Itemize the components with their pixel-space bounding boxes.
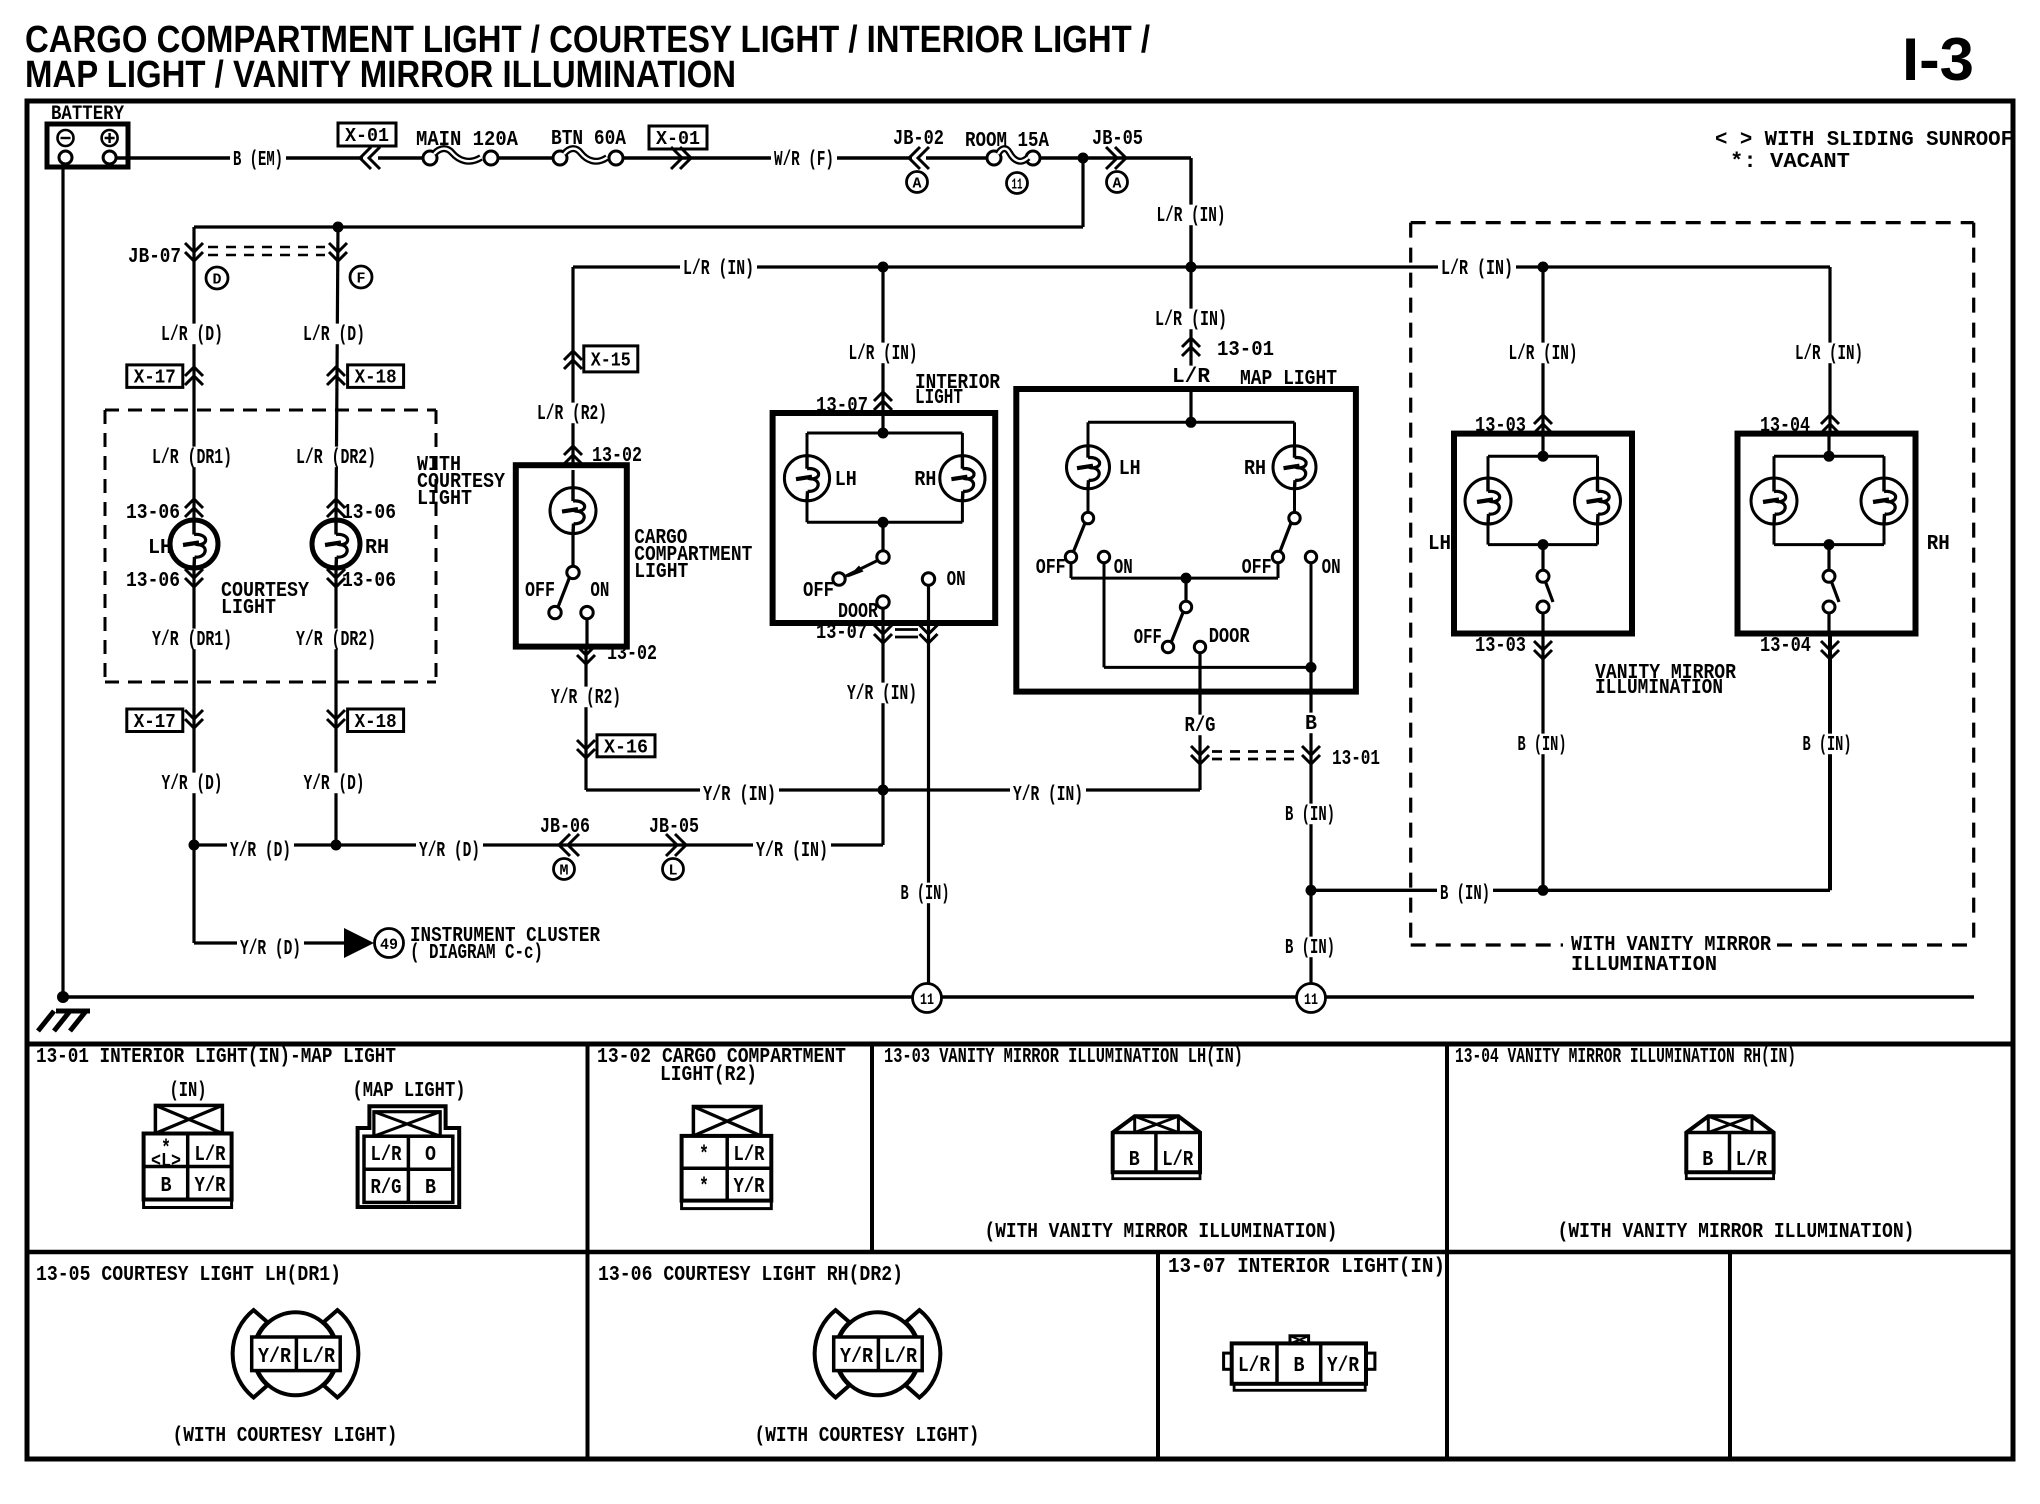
svg-text:11: 11 (920, 991, 934, 1009)
label Y/R(IN) mid 1 (700, 784, 779, 805)
svg-text:R/G: R/G (371, 1177, 402, 1200)
circled L (663, 859, 684, 880)
svg-text:RH: RH (1244, 458, 1266, 481)
connector X-16 (597, 735, 655, 757)
label B(IN) bus (1437, 883, 1493, 904)
wire B(IN) vanity RH (1828, 634, 1832, 891)
cargo OFF contact (549, 606, 561, 618)
svg-text:13-07 INTERIOR LIGHT(IN): 13-07 INTERIOR LIGHT(IN) (1168, 1256, 1445, 1279)
svg-text:13-06: 13-06 (342, 502, 396, 525)
map lamp rails (1189, 389, 1192, 422)
chevron 13-06 RH bottom (327, 569, 345, 578)
svg-text:RH: RH (1927, 533, 1950, 556)
13-01 dashed pair lower (1212, 758, 1296, 761)
svg-text:Y/R (IN): Y/R (IN) (703, 784, 776, 807)
courtesy light dashed box (105, 409, 436, 412)
junction map branch (1186, 262, 1197, 273)
svg-text:JB-06: JB-06 (540, 816, 590, 839)
svg-text:L/R: L/R (1172, 366, 1210, 389)
junction Y/R bus left (189, 840, 200, 851)
label Y/R(R2) (548, 687, 624, 708)
svg-text:M: M (560, 862, 569, 879)
label B(EM) (230, 149, 286, 170)
wire Y/R(D) bus (194, 843, 883, 846)
label L/R(IN) map upper (1152, 309, 1230, 330)
svg-text:I-3: I-3 (1902, 26, 1974, 93)
interior DOOR contact (877, 596, 889, 608)
vanity mirror illumination RH box (1738, 434, 1916, 634)
label L/R(D) right (300, 324, 368, 345)
connector 13-05 (254, 1312, 337, 1395)
wire Y/R(R2) (585, 619, 588, 646)
wire L/R(D) right (336, 227, 338, 520)
connector X-18 top (348, 365, 404, 388)
svg-text:Y/R (R2): Y/R (R2) (551, 687, 621, 710)
svg-text:13-04: 13-04 (1760, 635, 1811, 658)
svg-text:LH: LH (1119, 458, 1141, 481)
svg-text:LIGHT: LIGHT (634, 561, 688, 584)
wire vanity RH branch (1828, 267, 1831, 434)
svg-text:W/R (F): W/R (F) (774, 149, 834, 172)
svg-text:L/R: L/R (302, 1346, 335, 1369)
svg-text:ILLUMINATION: ILLUMINATION (1571, 954, 1717, 977)
vanity mirror illumination RH switch (1827, 545, 1830, 571)
wire to JB-05 (1040, 156, 1191, 159)
svg-text:MAP LIGHT: MAP LIGHT (1240, 368, 1337, 391)
svg-text:Y/R (D): Y/R (D) (162, 773, 223, 796)
label L/R(DR1) (149, 447, 235, 468)
wire Y/R(DR1) (192, 568, 195, 845)
label B(IN) vanity RH (1800, 734, 1855, 755)
svg-text:OFF: OFF (525, 580, 555, 603)
vanity mirror illumination LH switch (1541, 545, 1544, 571)
junction at battery ground (57, 991, 69, 1003)
svg-text:B: B (1702, 1149, 1713, 1172)
svg-text:11: 11 (1304, 991, 1318, 1009)
svg-text:Y/R (IN): Y/R (IN) (756, 840, 828, 863)
battery (47, 124, 128, 167)
svg-text:X-17: X-17 (134, 367, 176, 389)
svg-text:A: A (1113, 175, 1122, 192)
svg-text:*: * (699, 1144, 709, 1167)
svg-text:L/R: L/R (195, 1144, 226, 1167)
connector 13-04 (1686, 1116, 1773, 1172)
label L/R(IN) bus 1 (680, 258, 757, 279)
circled F (350, 266, 372, 288)
label L/R(R2) (534, 403, 610, 424)
connector 13-06 (836, 1312, 919, 1395)
label L/R(IN) map top (1154, 205, 1229, 226)
label L/R(IN) vanity LH (1506, 343, 1581, 364)
label B map (1302, 713, 1320, 734)
svg-text:Y/R (DR2): Y/R (DR2) (296, 629, 376, 652)
svg-text:L/R (D): L/R (D) (161, 324, 223, 347)
fuse BTN 60A (553, 151, 567, 165)
chevron X-18 top (327, 367, 345, 376)
dashed box with vanity mirror illumination (1411, 221, 1974, 224)
svg-text:D: D (213, 271, 222, 288)
svg-text:*: VACANT: *: VACANT (1730, 151, 1850, 174)
svg-text:L/R (D): L/R (D) (303, 324, 365, 347)
chevron 13-01 right (1302, 746, 1320, 755)
svg-text:13-02: 13-02 (607, 643, 657, 666)
svg-text:13-06: 13-06 (126, 570, 180, 593)
label Y/R(DR1) (149, 629, 235, 650)
svg-text:(WITH VANITY MIRROR ILLUMINATI: (WITH VANITY MIRROR ILLUMINATION) (1558, 1221, 1915, 1244)
connector chevron X-01 (360, 147, 371, 169)
map LH OFF contact (1065, 551, 1076, 562)
svg-text:A: A (913, 175, 922, 192)
connector 13-02 (693, 1107, 761, 1136)
chevron 13-02 top (564, 446, 582, 455)
svg-text:B: B (1305, 713, 1317, 736)
JB-07 dashed pair upper (208, 246, 325, 249)
label B(IN) interior (898, 883, 953, 904)
13-01 dashed pair upper (1212, 750, 1296, 753)
map RH switch (1293, 489, 1296, 513)
svg-text:Y/R: Y/R (840, 1346, 873, 1369)
svg-text:BTN 60A: BTN 60A (551, 128, 626, 151)
svg-text:L/R (DR1): L/R (DR1) (152, 447, 232, 470)
interior light switch (881, 522, 884, 551)
svg-text:49: 49 (380, 936, 398, 954)
svg-text:(WITH COURTESY LIGHT): (WITH COURTESY LIGHT) (173, 1425, 398, 1448)
map LH switch (1087, 489, 1090, 513)
svg-text:L/R: L/R (884, 1346, 917, 1369)
chevron 13-03 bottom (1534, 641, 1552, 650)
svg-text:13-01 INTERIOR LIGHT(IN)-MAP L: 13-01 INTERIOR LIGHT(IN)-MAP LIGHT (36, 1046, 396, 1069)
circled 11 ground left (913, 984, 942, 1013)
wire B map (1309, 667, 1312, 984)
svg-text:LH: LH (835, 469, 857, 492)
circled 11 under ROOM fuse (1007, 173, 1028, 194)
svg-text:B: B (1294, 1355, 1305, 1378)
chevron X-16 (577, 740, 595, 749)
svg-text:Y/R: Y/R (734, 1176, 765, 1199)
chevron X-17 top (185, 367, 203, 376)
table top edge (27, 1042, 2013, 1047)
chevron 13-07 bottom right (920, 625, 938, 634)
vanity mirror illumination LH box (1454, 434, 1632, 634)
interior bulb LH (784, 456, 829, 501)
label Y/R(D) on bus 1 (227, 840, 294, 861)
ground symbol (56, 1009, 90, 1014)
svg-text:13-06: 13-06 (126, 502, 180, 525)
wire R/G (1198, 653, 1201, 790)
svg-text:B (IN): B (IN) (1803, 734, 1852, 757)
svg-text:OFF: OFF (1036, 557, 1066, 580)
svg-text:B: B (161, 1175, 172, 1198)
junction vanity LH branch (1538, 262, 1549, 273)
label Y/R(DR2) (293, 629, 379, 650)
chevron 13-01 left (1191, 746, 1209, 755)
svg-text:L/R: L/R (1736, 1149, 1767, 1172)
chevron 13-01 (1182, 338, 1200, 347)
connector X-01 (left) (338, 123, 396, 146)
svg-text:ON: ON (590, 580, 609, 603)
svg-text:(IN): (IN) (170, 1080, 207, 1103)
svg-text:R/G: R/G (1185, 715, 1216, 738)
wire L/R(D) left (192, 227, 195, 520)
svg-text:13-06 COURTESY LIGHT RH(DR2): 13-06 COURTESY LIGHT RH(DR2) (598, 1264, 903, 1287)
map light box (1016, 389, 1356, 692)
svg-text:DOOR: DOOR (1209, 626, 1250, 649)
svg-text:X-17: X-17 (134, 711, 176, 733)
svg-text:Y/R: Y/R (1327, 1355, 1359, 1378)
vanity mirror illumination RH bulb left (1751, 478, 1797, 524)
table row divider (27, 1250, 2013, 1255)
svg-text:BATTERY: BATTERY (51, 103, 124, 126)
map DOOR contact (1194, 641, 1205, 652)
svg-text:Y/R: Y/R (195, 1175, 226, 1198)
map RH ON contact (1305, 551, 1316, 562)
arrow to instrument cluster (344, 928, 374, 958)
svg-text:< > WITH SLIDING SUNROOF: < > WITH SLIDING SUNROOF (1715, 129, 2013, 152)
wire vanity LH branch (1541, 267, 1544, 434)
svg-text:Y/R (IN): Y/R (IN) (1013, 784, 1083, 807)
svg-text:B: B (425, 1177, 436, 1200)
interior light box (773, 413, 996, 623)
svg-text:LIGHT(R2): LIGHT(R2) (660, 1064, 757, 1087)
svg-text:X-01: X-01 (345, 125, 389, 147)
connector 13-03 (1113, 1116, 1200, 1172)
svg-text:MAIN 120A: MAIN 120A (416, 129, 518, 152)
map DOOR switch (1184, 578, 1187, 601)
bus to courtesy branch JB-07 (194, 225, 1083, 228)
svg-text:ON: ON (947, 569, 966, 592)
label L/R(IN) bus 2 (1438, 258, 1516, 279)
wire to MAIN fuse (378, 156, 424, 159)
map bulb RH (1273, 446, 1316, 489)
svg-text:13-01: 13-01 (1332, 748, 1380, 771)
vanity mirror illumination RH bulb right (1861, 478, 1907, 524)
svg-text:L/R (IN): L/R (IN) (683, 258, 754, 281)
svg-text:13-03: 13-03 (1475, 635, 1526, 658)
connector X-17 bottom (127, 709, 183, 732)
svg-text:L/R (IN): L/R (IN) (1155, 309, 1227, 332)
map bulb LH (1067, 446, 1110, 489)
svg-text:13-05 COURTESY LIGHT LH(DR1): 13-05 COURTESY LIGHT LH(DR1) (36, 1264, 341, 1287)
chevron 13-06 LH bottom (185, 569, 203, 578)
circled 11 ground right (1297, 984, 1326, 1013)
Y/R(IN) bus (586, 788, 1200, 791)
svg-text:Y/R (D): Y/R (D) (304, 773, 365, 796)
label W/R(F) (771, 149, 837, 170)
svg-text:(WITH COURTESY LIGHT): (WITH COURTESY LIGHT) (755, 1425, 980, 1448)
fuse ROOM 15A (987, 151, 1001, 165)
junction Y/R(IN) (878, 785, 889, 796)
svg-text:O: O (425, 1144, 436, 1167)
connector chevron X-01 right (671, 147, 682, 169)
ground bus (63, 995, 1974, 999)
connector X-18 bottom (348, 709, 404, 732)
svg-text:(WITH VANITY MIRROR ILLUMINATI: (WITH VANITY MIRROR ILLUMINATION) (985, 1221, 1338, 1244)
wire B(EM) main feed (116, 156, 363, 159)
chevron X-17 bottom (185, 710, 203, 719)
svg-text:F: F (357, 270, 366, 287)
svg-text:JB-05: JB-05 (1092, 128, 1143, 151)
svg-text:Y/R (DR1): Y/R (DR1) (152, 629, 232, 652)
wire B(IN) vanity LH (1541, 634, 1544, 891)
svg-text:L/R: L/R (1238, 1355, 1270, 1378)
label Y/R(D) left (159, 773, 226, 794)
chevron 13-07 bottom left (874, 625, 892, 634)
label L/R(IN) vanity RH (1792, 343, 1866, 364)
svg-text:X-01: X-01 (656, 128, 700, 150)
map ON rail (1103, 563, 1106, 668)
label L/R(IN) interior (846, 343, 921, 364)
fusible link MAIN 120A (423, 151, 437, 165)
interior bulb RH (940, 456, 985, 501)
svg-text:ROOM 15A: ROOM 15A (965, 130, 1049, 153)
svg-text:B (IN): B (IN) (901, 883, 950, 906)
circled D (206, 267, 228, 289)
svg-text:( DIAGRAM C-c): ( DIAGRAM C-c) (410, 942, 543, 965)
svg-text:13-07: 13-07 (816, 622, 867, 645)
interior lamp rails (807, 432, 962, 435)
svg-text:13-03 VANITY MIRROR ILLUMINATI: 13-03 VANITY MIRROR ILLUMINATION LH(IN) (884, 1046, 1243, 1069)
chevron 13-07 top (874, 392, 892, 401)
svg-text:LIGHT: LIGHT (915, 387, 963, 410)
svg-text:OFF: OFF (1242, 557, 1272, 580)
13-07 double dash joiner (895, 628, 918, 631)
wire L/R(IN) map branch (1189, 267, 1192, 389)
label R/G (1182, 715, 1219, 736)
junction interior branch (878, 262, 889, 273)
wire (498, 156, 553, 159)
chevron 13-03 top (1534, 415, 1552, 424)
svg-text:L/R (R2): L/R (R2) (537, 403, 607, 426)
svg-text:13-06: 13-06 (342, 570, 396, 593)
circled A at JB-05 (1107, 172, 1128, 193)
B(IN) bus (1311, 889, 1830, 892)
svg-text:13-04 VANITY MIRROR ILLUMINATI: 13-04 VANITY MIRROR ILLUMINATION RH(IN) (1455, 1046, 1796, 1069)
interior ON contact (922, 573, 934, 585)
svg-text:L/R (IN): L/R (IN) (849, 343, 918, 366)
svg-text:*: * (699, 1176, 709, 1199)
chevron JB-07 left (185, 243, 203, 252)
JB-07 dashed pair lower (208, 254, 325, 257)
cargo compartment bulb (550, 488, 596, 534)
connector X-15 (584, 346, 638, 372)
map OFF rail (1070, 563, 1073, 578)
chevron X-18 bottom (327, 710, 345, 719)
map LH ON contact (1098, 551, 1109, 562)
connector 13-07 (1290, 1336, 1309, 1344)
svg-text:B (IN): B (IN) (1285, 937, 1335, 960)
label Y/R(IN) on bus (753, 840, 831, 861)
svg-text:Y/R: Y/R (258, 1346, 291, 1369)
svg-text:ON: ON (1114, 557, 1133, 580)
junction B(IN) bus (1306, 885, 1317, 896)
chevron 13-04 bottom (1821, 641, 1839, 650)
svg-text:(MAP LIGHT): (MAP LIGHT) (353, 1080, 466, 1103)
cargo light switch (571, 534, 574, 566)
svg-text:B: B (1129, 1149, 1140, 1172)
svg-text:L/R (DR2): L/R (DR2) (296, 447, 376, 470)
svg-text:L/R: L/R (734, 1144, 765, 1167)
wire L/R(IN) interior branch (881, 267, 884, 433)
wire to instrument cluster (192, 845, 195, 943)
L/R(IN) bus (573, 265, 1830, 268)
connector X-17 top (127, 365, 183, 388)
svg-text:X-18: X-18 (355, 367, 397, 389)
svg-text:L/R (IN): L/R (IN) (1509, 343, 1578, 366)
svg-text:B (IN): B (IN) (1440, 883, 1490, 906)
wire Y/R(DR2) (334, 568, 337, 845)
cargo ON contact (581, 606, 593, 618)
label B(IN) map 1 (1282, 804, 1338, 825)
map DOOR-OFF contact (1162, 641, 1173, 652)
cargo compartment light box (516, 465, 627, 646)
connector X-01 (right) (649, 126, 707, 149)
chevron 13-04 top (1821, 415, 1839, 424)
circled A at JB-02 (907, 172, 928, 193)
svg-text:MAP LIGHT / VANITY MIRROR ILLU: MAP LIGHT / VANITY MIRROR ILLUMINATION (25, 54, 736, 96)
label B(IN) map 2 (1282, 937, 1338, 958)
svg-text:L/R (IN): L/R (IN) (1441, 258, 1513, 281)
battery negative wire (61, 164, 64, 997)
chevron 13-06 LH top (185, 499, 203, 508)
label B(IN) vanity LH (1515, 734, 1570, 755)
chevron JB-06 (559, 834, 570, 856)
vanity mirror illumination LH bulb left (1465, 478, 1511, 524)
chevron JB-07 right (329, 243, 347, 252)
wire to ROOM fuse (926, 156, 987, 159)
wire up to Y/R(IN) bus (881, 790, 884, 845)
courtesy light bulb LH (170, 520, 218, 568)
label Y/R(D) instrument (237, 938, 304, 959)
courtesy light bulb RH (312, 520, 360, 568)
circled 49 (375, 929, 404, 958)
svg-text:Y/R (D): Y/R (D) (240, 938, 301, 961)
svg-text:X-18: X-18 (355, 711, 397, 733)
svg-text:B (EM): B (EM) (233, 149, 283, 172)
label L/R map (1169, 366, 1213, 387)
svg-text:Y/R (IN): Y/R (IN) (847, 683, 917, 706)
label Y/R(IN) door wire (844, 683, 920, 704)
svg-text:LIGHT: LIGHT (221, 597, 276, 620)
wire W/R(F) (623, 156, 912, 159)
chevron 13-02 bottom (577, 646, 595, 655)
interior OFF contact (833, 573, 845, 585)
svg-text:ILLUMINATION: ILLUMINATION (1595, 677, 1723, 700)
svg-text:LH: LH (1428, 533, 1451, 556)
table column dividers (586, 1044, 590, 1459)
wire inside cargo box (571, 470, 574, 488)
svg-text:RH: RH (365, 537, 389, 560)
vanity mirror illumination LH bulb right (1575, 478, 1621, 524)
svg-text:OFF: OFF (803, 580, 834, 603)
svg-text:RH: RH (914, 469, 936, 492)
svg-text:<L>: <L> (151, 1150, 181, 1172)
svg-text:OFF: OFF (1134, 627, 1162, 650)
junction block chevron JB-05 (1106, 147, 1117, 169)
wire DOOR down Y/R(IN) (881, 608, 884, 790)
wire from junction down to D/F bus (1081, 158, 1084, 227)
wire L/R(R2) (571, 267, 574, 465)
label L/R(D) left (158, 324, 226, 345)
svg-text:JB-02: JB-02 (893, 128, 944, 151)
svg-text:B (IN): B (IN) (1285, 804, 1335, 827)
svg-text:X-16: X-16 (604, 736, 648, 758)
chevron 13-06 RH top (327, 499, 345, 508)
svg-text:L/R: L/R (1162, 1149, 1193, 1172)
svg-text:Y/R (D): Y/R (D) (230, 840, 291, 863)
svg-text:L: L (669, 862, 678, 879)
svg-text:B (IN): B (IN) (1518, 734, 1567, 757)
map RH OFF contact (1272, 551, 1283, 562)
